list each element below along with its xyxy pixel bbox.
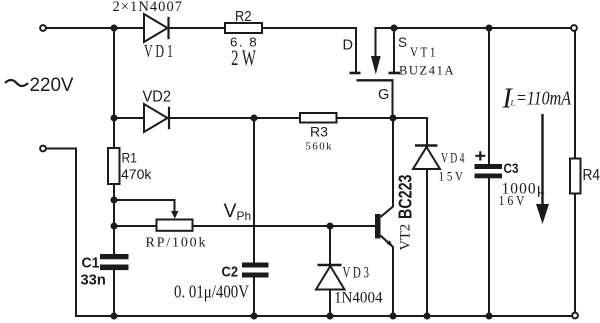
capacitor C2 xyxy=(174,263,269,302)
svg-text:470k: 470k xyxy=(121,166,152,182)
wire VD4 branch vertical xyxy=(426,118,428,316)
svg-text:C1: C1 xyxy=(82,255,100,272)
net label ~220V xyxy=(5,75,74,96)
wire R4 branch vertical xyxy=(574,28,576,316)
current annotation IL=110mA xyxy=(502,84,572,225)
wire C2 branch vertical xyxy=(253,118,255,316)
diode VD1 xyxy=(144,14,173,61)
diode VD3 xyxy=(316,265,383,307)
svg-text:V T 1: V T 1 xyxy=(410,45,436,60)
node gate junction xyxy=(390,115,397,122)
svg-text:2 W: 2 W xyxy=(231,45,256,70)
wire top rail left segment xyxy=(43,27,356,29)
svg-text:G: G xyxy=(378,87,389,103)
svg-text:S: S xyxy=(398,35,407,50)
zener diode VD4 xyxy=(413,146,465,184)
resistor R3 xyxy=(300,113,337,153)
resistor R1 xyxy=(108,148,152,184)
node RP upper tap xyxy=(111,197,118,204)
svg-text:1N4004: 1N4004 xyxy=(334,290,383,307)
wire R1 branch vertical xyxy=(113,118,115,316)
node bottom rail C1 xyxy=(111,313,118,320)
node bottom rail VD4 xyxy=(424,313,431,320)
svg-text:2×1N4007: 2×1N4007 xyxy=(113,0,183,15)
terminal output top xyxy=(571,25,577,31)
svg-text:V D 3: V D 3 xyxy=(343,265,370,282)
transistor VT1 (MOSFET BUZ41A) xyxy=(343,28,454,118)
terminal input top xyxy=(40,25,46,31)
node bottom rail emitter xyxy=(390,313,397,320)
transistor VT2 (BC223) xyxy=(375,118,416,316)
svg-text:L: L xyxy=(510,99,516,108)
node bottom rail C3 xyxy=(486,313,493,320)
resistor R2 xyxy=(225,8,262,70)
wire bottom rail xyxy=(76,315,575,317)
drain bar xyxy=(350,72,361,75)
gate wire xyxy=(392,80,394,118)
diode VD2 xyxy=(143,88,172,132)
svg-text:BC223: BC223 xyxy=(396,175,416,220)
terminal input bottom xyxy=(40,146,46,152)
svg-text:BUZ41A: BUZ41A xyxy=(399,64,454,78)
wire top rail right segment xyxy=(376,27,575,29)
potentiometer RP xyxy=(146,211,206,251)
node bottom rail VD3 xyxy=(327,313,334,320)
capacitor C3 xyxy=(475,151,546,209)
svg-text:RP/100k: RP/100k xyxy=(146,236,206,251)
svg-text:R4: R4 xyxy=(583,167,600,184)
substrate arrow xyxy=(375,28,377,60)
svg-text:560k: 560k xyxy=(306,141,333,153)
node VD3 base junction xyxy=(327,223,334,230)
wire RP wiper feed xyxy=(114,200,175,211)
svg-text:D: D xyxy=(343,38,353,54)
capacitor C1 xyxy=(81,254,129,289)
svg-text:0. 01μ/400V: 0. 01μ/400V xyxy=(174,282,249,302)
resistor R4 xyxy=(570,159,600,194)
terminal output bottom xyxy=(572,313,578,319)
svg-text:R1: R1 xyxy=(122,150,138,166)
wire VD2/R3 row xyxy=(114,117,427,119)
svg-text:VT2: VT2 xyxy=(398,224,414,251)
svg-text:V D 4: V D 4 xyxy=(441,151,465,167)
wire VD3 branch vertical xyxy=(329,226,331,316)
source line xyxy=(393,28,395,72)
wire C3 branch vertical xyxy=(488,28,490,316)
node VD2 row left xyxy=(111,115,118,122)
emitter diagonal xyxy=(381,236,394,317)
svg-text:C3: C3 xyxy=(504,160,519,176)
svg-text:C2: C2 xyxy=(222,264,239,281)
wire left vertical from top junction to VD2 row xyxy=(113,28,115,118)
collector diagonal xyxy=(381,118,394,217)
node RP lower tap xyxy=(111,223,118,230)
node source on top rail xyxy=(391,25,398,32)
svg-text:33n: 33n xyxy=(81,272,106,289)
svg-text:VD2: VD2 xyxy=(143,88,172,105)
svg-text:220V: 220V xyxy=(30,75,74,96)
svg-text:R3: R3 xyxy=(310,124,328,140)
svg-text:1 5 V: 1 5 V xyxy=(439,170,464,184)
wire lower input terminal to left rail xyxy=(43,149,76,317)
svg-text:=110mA: =110mA xyxy=(516,89,572,110)
node C3 top rail xyxy=(486,25,493,32)
svg-text:1 6 V: 1 6 V xyxy=(499,194,525,209)
gate bar xyxy=(357,79,394,81)
svg-text:V D 1: V D 1 xyxy=(144,41,173,61)
node top junction VD1/VD2 split xyxy=(111,25,118,32)
wire drain drop from R2 rail xyxy=(355,28,357,72)
svg-text:R2: R2 xyxy=(235,8,252,25)
node bottom rail C2 xyxy=(251,313,258,320)
node C2 top xyxy=(251,115,258,122)
wire VPh row to transistor base xyxy=(114,225,375,227)
source bar xyxy=(389,72,401,75)
